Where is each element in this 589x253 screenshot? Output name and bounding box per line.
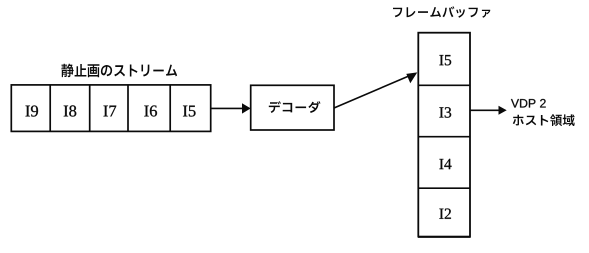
decoder box: [251, 85, 334, 130]
frame buffer cell label I5: [439, 55, 451, 65]
frame buffer cell label I2: [439, 209, 450, 219]
arrow: decoder to frame buffer: [334, 72, 417, 108]
label: decoder (デコーダ): [269, 101, 321, 113]
frame buffer cell label I3: [439, 107, 451, 117]
stream row divider 3: [127, 85, 129, 131]
stream row outer box: [11, 85, 210, 131]
frame buffer outer box: [418, 33, 470, 237]
stream row divider 1: [49, 85, 51, 131]
arrow: frame buffer to VDP 2 host area: [470, 106, 507, 115]
stream row divider 4: [169, 85, 171, 131]
arrow: stream row to decoder: [212, 103, 251, 113]
frame buffer divider 2: [418, 136, 470, 138]
cell label I5: [183, 106, 196, 117]
frame buffer cell label I4: [439, 159, 451, 169]
frame buffer divider 3: [418, 187, 470, 189]
label: host area (ホスト領域): [513, 114, 575, 126]
label: VDP 2: [511, 99, 546, 108]
label: frame buffer (フレームバッファ): [393, 6, 490, 18]
stream row divider 2: [89, 85, 91, 131]
label: still-image stream (静止画のストリーム): [61, 64, 177, 78]
cell label I6: [144, 105, 157, 116]
cell label I9: [26, 105, 38, 116]
frame buffer divider 1: [418, 84, 470, 86]
cell label I7: [104, 106, 117, 117]
cell label I8: [64, 105, 77, 116]
frame buffer bottom edge (thick in scan): [418, 236, 471, 238]
